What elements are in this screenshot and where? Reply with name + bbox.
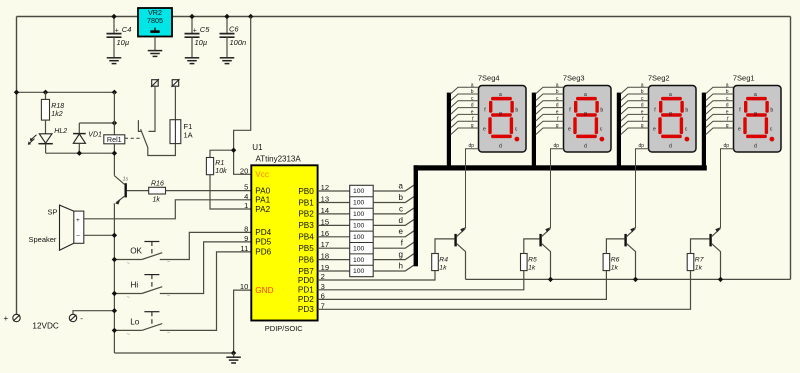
wire pin e of 7Seg2	[621, 114, 649, 121]
wire R5 to Q3 base	[524, 239, 540, 254]
svg-text:7Seg3: 7Seg3	[563, 73, 585, 82]
terminal 12VDC -	[69, 314, 76, 321]
svg-text:−: −	[167, 294, 170, 300]
wire row c to bus	[373, 208, 414, 214]
svg-text:PD0: PD0	[298, 276, 314, 285]
svg-text:7Seg2: 7Seg2	[648, 73, 670, 82]
junction C6/top rail	[224, 14, 229, 19]
wire pin c of 7Seg4	[451, 101, 479, 108]
voltage regulator VR2 7805	[138, 8, 172, 37]
resistor R16	[149, 187, 166, 194]
wire PD0 to base resistor	[318, 271, 435, 280]
svg-text:R18: R18	[51, 103, 64, 110]
svg-text:PDIP/SOIC: PDIP/SOIC	[265, 324, 304, 333]
svg-text:g: g	[556, 123, 559, 129]
wire pin g of 7Seg2	[621, 128, 649, 135]
relay switch arm and wire to fuse	[141, 129, 176, 155]
wire row f to bus	[373, 242, 414, 248]
wire pin e of 7Seg1	[706, 114, 734, 121]
svg-text:PB4: PB4	[298, 233, 314, 242]
svg-text:-: -	[80, 314, 83, 323]
bus vertical bar to 7Seg4	[447, 93, 451, 171]
7-segment display 7Seg4	[479, 86, 527, 153]
svg-text:PB7: PB7	[298, 267, 314, 276]
svg-text:g: g	[584, 111, 587, 117]
wire pin f of 7Seg2	[621, 121, 649, 128]
svg-text:PD1: PD1	[298, 286, 314, 295]
capacitor C5	[185, 34, 200, 38]
svg-text:d: d	[471, 103, 474, 109]
capacitor C4	[107, 34, 122, 38]
svg-text:7Seg1: 7Seg1	[733, 73, 755, 82]
svg-text:PA0: PA0	[255, 186, 270, 195]
wire pin b of 7Seg3	[536, 94, 564, 101]
wire relay coil bottom to Q collector	[113, 144, 115, 176]
svg-text:+: +	[76, 217, 80, 224]
push button Lo	[114, 329, 141, 331]
wire VD1 anode down	[78, 143, 80, 153]
segment a of 7Seg4	[491, 97, 512, 101]
wire C5 bottom	[191, 37, 193, 57]
svg-text:d: d	[669, 144, 672, 150]
resistor R5	[521, 254, 528, 271]
svg-text:d: d	[556, 103, 559, 109]
junction R18 top	[43, 90, 48, 95]
wire PB2 stub to resistor network	[318, 213, 350, 215]
svg-text:g: g	[669, 111, 672, 117]
svg-text:100n: 100n	[230, 38, 247, 47]
push button Hi	[114, 293, 141, 295]
segment e of 7Seg2	[658, 117, 661, 134]
svg-text:g: g	[471, 123, 474, 129]
svg-text:ATtiny2313A: ATtiny2313A	[256, 154, 302, 163]
svg-text:~: ~	[127, 295, 130, 301]
wire dp/common of 7Seg3 to transistor	[551, 149, 564, 228]
resistor R6	[603, 254, 610, 271]
segment a of 7Seg1	[746, 97, 767, 101]
ground (main)	[233, 353, 235, 357]
7-segment display 7Seg3	[564, 86, 612, 153]
svg-text:PD5: PD5	[255, 238, 271, 247]
resistor R1	[206, 158, 213, 175]
wire pin d of 7Seg4	[451, 108, 479, 115]
svg-text:1k: 1k	[528, 264, 536, 271]
svg-text:OK: OK	[130, 247, 142, 256]
wire pin b of 7Seg2	[621, 94, 649, 101]
svg-text:100: 100	[353, 211, 365, 218]
resistor R7	[687, 254, 694, 271]
wire +5V to MCU Vcc pin 20	[234, 17, 252, 175]
wire Q1 collector diagonal	[114, 176, 125, 185]
svg-text:11: 11	[240, 244, 248, 253]
wire PB7 stub to resistor network	[318, 270, 350, 272]
svg-text:PD3: PD3	[298, 305, 314, 314]
wire R7 to Q5 base	[691, 239, 710, 254]
wire pin f of 7Seg3	[536, 121, 564, 128]
svg-text:h: h	[399, 261, 403, 270]
svg-text:10k: 10k	[215, 168, 227, 175]
svg-text:R4: R4	[439, 256, 448, 263]
wire Q3 emitter with arrow	[542, 228, 551, 236]
segment b of 7Seg3	[595, 101, 598, 113]
resistor R18	[41, 99, 49, 120]
wire R18 to HL2	[45, 120, 47, 134]
wire pin d of 7Seg2	[621, 108, 649, 115]
wire R1 bottom to PA2 pin 1	[210, 175, 251, 209]
svg-text:C6: C6	[229, 25, 239, 34]
transistor Q3 (driver for 7Seg3)	[539, 234, 541, 247]
svg-text:g: g	[754, 111, 757, 117]
svg-text:PB1: PB1	[298, 198, 314, 207]
svg-text:d: d	[499, 144, 502, 150]
wire row e to bus	[373, 231, 414, 237]
wire R18 top lead	[45, 92, 47, 99]
wire pin c of 7Seg2	[621, 101, 649, 108]
svg-text:dp: dp	[468, 143, 474, 149]
svg-text:PD2: PD2	[298, 295, 314, 304]
segment dp of 7Seg4	[515, 137, 520, 142]
svg-text:−: −	[76, 233, 80, 240]
wire PD3 to base resistor	[318, 271, 691, 310]
junction coil bottom	[112, 151, 117, 156]
wire PB3 stub to resistor network	[318, 224, 350, 226]
segment d of 7Seg1	[746, 135, 767, 139]
wire Q5 collector	[712, 244, 721, 280]
svg-text:e: e	[483, 127, 486, 133]
svg-text:a: a	[399, 181, 404, 190]
svg-text:12VDC: 12VDC	[32, 322, 58, 331]
svg-text:e: e	[471, 110, 474, 116]
svg-text:b: b	[600, 108, 603, 114]
segment b of 7Seg1	[765, 101, 768, 113]
svg-text:−: −	[167, 260, 170, 266]
segment g of 7Seg3	[576, 113, 597, 117]
wire Q4 collector	[627, 244, 636, 280]
svg-text:e: e	[738, 127, 741, 133]
svg-text:g: g	[399, 250, 403, 259]
svg-text:9: 9	[244, 234, 248, 243]
wire left button rail (emitter to ground)	[113, 203, 115, 353]
wire Q2 collector	[457, 244, 466, 280]
segment d of 7Seg4	[491, 135, 512, 139]
svg-text:7805: 7805	[147, 16, 163, 25]
fuse F1	[170, 120, 181, 144]
segment e of 7Seg3	[573, 117, 576, 134]
capacitor C6	[220, 34, 235, 38]
terminal T2 (fuse out)	[172, 80, 179, 87]
wire +5V top rail (right of VR2)	[172, 16, 791, 18]
wire pin f of 7Seg4	[451, 121, 479, 128]
svg-text:b: b	[641, 89, 644, 95]
segment f of 7Seg1	[744, 101, 747, 113]
junction speaker -/rail	[112, 233, 117, 238]
junction VD1/relay coil	[112, 120, 117, 125]
wire HL2 cathode down	[45, 144, 47, 154]
wire dp/common of 7Seg4 to transistor	[466, 149, 479, 228]
junction on left rail	[14, 90, 19, 95]
ground below VR2	[148, 50, 163, 52]
wire relay mechanical link (dashed)	[125, 137, 142, 139]
svg-text:e: e	[568, 127, 571, 133]
svg-text:1k: 1k	[611, 264, 619, 271]
wire Q4 emitter with arrow	[627, 228, 636, 236]
wire row a to bus	[373, 185, 414, 191]
wire pin e of 7Seg4	[451, 114, 479, 121]
wire left +12V rail down to + terminal	[16, 17, 18, 315]
transistor Q1 (relay driver)	[124, 183, 126, 197]
svg-text:R6: R6	[611, 256, 620, 263]
svg-text:PB0: PB0	[298, 187, 314, 196]
svg-text:PA1: PA1	[255, 196, 270, 205]
segment f of 7Seg3	[574, 101, 577, 113]
svg-text:1k2: 1k2	[51, 111, 62, 118]
segment c of 7Seg1	[765, 117, 768, 134]
wire +12V top rail (left of VR2)	[17, 16, 139, 18]
relay coil Rel1	[104, 135, 125, 144]
bus vertical bar to 7Seg2	[617, 93, 621, 171]
svg-text:−: −	[167, 331, 170, 337]
transistor Q2 (driver for 7Seg4)	[454, 234, 456, 247]
terminal T1 (relay contact out)	[152, 80, 159, 87]
svg-text:R5: R5	[528, 256, 537, 263]
svg-text:20: 20	[240, 166, 248, 175]
svg-text:R1: R1	[215, 160, 224, 167]
push button OK	[114, 259, 141, 261]
svg-text:a: a	[556, 82, 559, 88]
svg-text:R7: R7	[695, 256, 704, 263]
wire R16 to PA0 pin 5	[166, 190, 252, 192]
wire pin g of 7Seg4	[451, 128, 479, 135]
segment g of 7Seg4	[491, 113, 512, 117]
svg-text:HL2: HL2	[54, 128, 67, 135]
ground below C6	[220, 57, 235, 59]
wire - terminal to rail	[73, 311, 114, 315]
svg-text:8: 8	[244, 225, 248, 234]
wire pin g of 7Seg1	[706, 128, 734, 135]
wire relay feed from +12V rail	[17, 91, 115, 93]
svg-text:PB3: PB3	[298, 221, 314, 230]
segment g of 7Seg1	[746, 113, 767, 117]
svg-text:PB5: PB5	[298, 244, 314, 253]
svg-text:dp: dp	[638, 143, 644, 149]
svg-text:1k: 1k	[153, 197, 161, 204]
svg-text:dp: dp	[553, 143, 559, 149]
junction C5/top rail	[189, 14, 194, 19]
segment a of 7Seg2	[661, 97, 682, 101]
svg-text:Vcc: Vcc	[255, 170, 269, 179]
segment d of 7Seg2	[661, 135, 682, 139]
resistor network RN 8x100	[350, 185, 374, 276]
wire dp/common of 7Seg1 to transistor	[721, 149, 734, 228]
svg-text:Speaker: Speaker	[29, 235, 57, 244]
wire row g to bus	[373, 253, 414, 259]
wire right +5V rail down to transistor common line	[790, 17, 792, 280]
svg-text:100: 100	[353, 223, 365, 230]
svg-text:Lo: Lo	[130, 317, 140, 326]
segment e of 7Seg1	[743, 117, 746, 134]
svg-text:1k: 1k	[439, 264, 447, 271]
junction C4/top rail	[111, 14, 116, 19]
svg-text:100: 100	[353, 245, 365, 252]
svg-text:100: 100	[353, 200, 365, 207]
svg-text:g: g	[499, 111, 502, 117]
svg-text:g: g	[641, 123, 644, 129]
resistor R4	[432, 254, 439, 271]
svg-text:1s: 1s	[123, 177, 129, 183]
wire dp/common of 7Seg2 to transistor	[636, 149, 649, 228]
wire bottom rail to ground	[114, 352, 233, 354]
segment d of 7Seg3	[576, 135, 597, 139]
svg-text:C4: C4	[122, 25, 132, 34]
ground below C4	[107, 57, 122, 59]
junction Q4 collector	[633, 277, 638, 282]
svg-text:100: 100	[353, 257, 365, 264]
wire Q1 emitter diagonal with arrow	[116, 196, 125, 203]
junction Q3 collector	[548, 277, 553, 282]
svg-text:d: d	[641, 103, 644, 109]
svg-text:c: c	[399, 204, 403, 213]
segment a of 7Seg3	[576, 97, 597, 101]
wire speaker + to PA1 pin 4	[84, 200, 252, 219]
svg-text:b: b	[726, 89, 729, 95]
svg-text:e: e	[399, 227, 404, 236]
svg-text:PD4: PD4	[255, 228, 271, 237]
svg-text:e: e	[556, 110, 559, 116]
svg-text:PB6: PB6	[298, 255, 314, 264]
svg-text:b: b	[770, 108, 773, 114]
svg-text:b: b	[556, 89, 559, 95]
wire Q2 emitter with arrow	[457, 228, 466, 236]
bus vertical bar to 7Seg1	[702, 93, 706, 171]
wire VD1 top lead	[78, 123, 80, 134]
svg-text:1k: 1k	[695, 264, 703, 271]
svg-text:7Seg4: 7Seg4	[478, 73, 500, 82]
svg-text:g: g	[726, 123, 729, 129]
segment dp of 7Seg2	[685, 137, 690, 142]
svg-text:a: a	[499, 92, 502, 98]
wire PB1 stub to resistor network	[318, 202, 350, 204]
svg-text:100: 100	[353, 234, 365, 241]
wire pin c of 7Seg3	[536, 101, 564, 108]
junction Q5 collector	[718, 277, 723, 282]
wire pin a of 7Seg3	[536, 87, 564, 94]
wire PD2 to base resistor	[318, 271, 607, 300]
wire terminal T2 to fuse F1	[174, 86, 176, 120]
wire PB5 stub to resistor network	[318, 247, 350, 249]
wire PB6 stub to resistor network	[318, 259, 350, 261]
wire R1 top to Vcc net	[210, 150, 234, 157]
segment c of 7Seg2	[680, 117, 683, 134]
diode VD1	[73, 133, 86, 135]
svg-text:10µ: 10µ	[117, 38, 130, 47]
wire C6 top	[226, 17, 228, 34]
bus vertical bar (from resistor network)	[414, 165, 418, 266]
wire row b to bus	[373, 196, 414, 202]
svg-text:b: b	[471, 89, 474, 95]
svg-text:1A: 1A	[184, 131, 193, 140]
segment f of 7Seg4	[489, 101, 492, 113]
svg-text:~: ~	[127, 332, 130, 338]
segment dp of 7Seg3	[600, 137, 605, 142]
wire terminal T1 to contact	[149, 86, 156, 131]
wire pin a of 7Seg1	[706, 87, 734, 94]
junction Lo/rail	[112, 328, 117, 333]
svg-text:d: d	[754, 144, 757, 150]
wire relay coil top lead	[113, 92, 115, 135]
segment dp of 7Seg1	[770, 137, 775, 142]
svg-text:5: 5	[244, 183, 248, 192]
wire PD1 to base resistor	[318, 271, 524, 290]
svg-text:PD6: PD6	[255, 248, 271, 257]
svg-text:Hi: Hi	[131, 281, 139, 290]
wire Q5 emitter with arrow	[712, 228, 721, 236]
segment b of 7Seg2	[680, 101, 683, 113]
wire PB0 stub to resistor network	[318, 190, 350, 192]
segment c of 7Seg3	[595, 117, 598, 134]
junction R1/Vcc net	[231, 148, 236, 153]
svg-text:C5: C5	[200, 25, 210, 34]
junction ground node	[231, 350, 236, 355]
segment g of 7Seg2	[661, 113, 682, 117]
wire R6 to Q4 base	[606, 239, 624, 254]
wire row h to bus	[373, 265, 414, 271]
wire C4 top	[113, 17, 115, 34]
wire pin c of 7Seg1	[706, 101, 734, 108]
svg-text:a: a	[641, 82, 644, 88]
bus horizontal bar	[414, 165, 707, 170]
svg-text:a: a	[754, 92, 757, 98]
svg-text:GND: GND	[255, 286, 273, 295]
svg-text:SP: SP	[48, 208, 58, 217]
wire MCU GND pin 10 down	[234, 290, 252, 353]
junction -/rail	[112, 308, 117, 313]
wire pin d of 7Seg3	[536, 108, 564, 115]
wire C5 top	[191, 17, 193, 34]
svg-text:U1: U1	[252, 143, 263, 152]
wire pin b of 7Seg1	[706, 94, 734, 101]
wire pin e of 7Seg3	[536, 114, 564, 121]
wire pin a of 7Seg2	[621, 87, 649, 94]
svg-text:R16: R16	[151, 180, 164, 187]
svg-text:PA2: PA2	[255, 205, 270, 214]
svg-text:e: e	[726, 110, 729, 116]
segment e of 7Seg4	[488, 117, 491, 134]
svg-text:dp: dp	[723, 143, 729, 149]
svg-text:+: +	[193, 27, 197, 34]
wire PB4 stub to resistor network	[318, 236, 350, 238]
svg-text:10µ: 10µ	[195, 38, 208, 47]
svg-text:~: ~	[127, 261, 130, 267]
svg-text:a: a	[471, 82, 474, 88]
wire speaker - to rail	[84, 234, 115, 236]
junction Hi/rail	[112, 291, 117, 296]
wire transistor common line to +5V rail	[466, 278, 791, 280]
svg-text:d: d	[584, 144, 587, 150]
wire pin b of 7Seg4	[451, 94, 479, 101]
transistor Q4 (driver for 7Seg2)	[624, 234, 626, 247]
svg-text:d: d	[726, 103, 729, 109]
7-segment display 7Seg2	[649, 86, 697, 153]
svg-text:+: +	[4, 314, 9, 323]
segment c of 7Seg4	[510, 117, 513, 134]
svg-text:e: e	[653, 127, 656, 133]
svg-text:b: b	[685, 108, 688, 114]
wire C4 bottom	[113, 37, 115, 57]
wire R4 to Q2 base	[435, 239, 455, 254]
wire pin g of 7Seg3	[536, 128, 564, 135]
svg-text:a: a	[669, 92, 672, 98]
wire pin d of 7Seg1	[706, 108, 734, 115]
